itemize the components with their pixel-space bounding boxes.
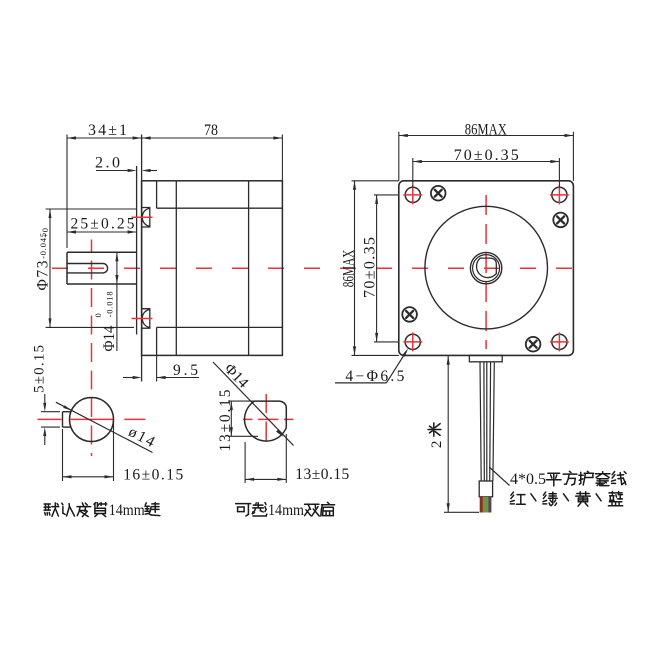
svg-text:78: 78 [204,122,218,139]
svg-text:-0.045: -0.045 [38,232,48,259]
svg-text:5±0.15: 5±0.15 [32,345,48,393]
svg-text:0: 0 [93,312,103,317]
svg-text:34±1: 34±1 [88,122,127,139]
svg-text:Φ14: Φ14 [101,325,118,351]
svg-text:4*0.5: 4*0.5 [510,471,546,488]
svg-text:86MAX: 86MAX [341,249,358,287]
svg-text:-0.018: -0.018 [105,291,115,318]
svg-text:2: 2 [429,440,445,448]
svg-text:9.5: 9.5 [173,362,198,379]
svg-text:Φ73: Φ73 [35,260,52,290]
svg-text:14mm: 14mm [109,502,145,519]
svg-text:86MAX: 86MAX [465,122,507,139]
svg-text:14mm: 14mm [268,502,304,519]
svg-text:13±0.15: 13±0.15 [295,466,349,483]
svg-text:2.0: 2.0 [95,155,120,172]
